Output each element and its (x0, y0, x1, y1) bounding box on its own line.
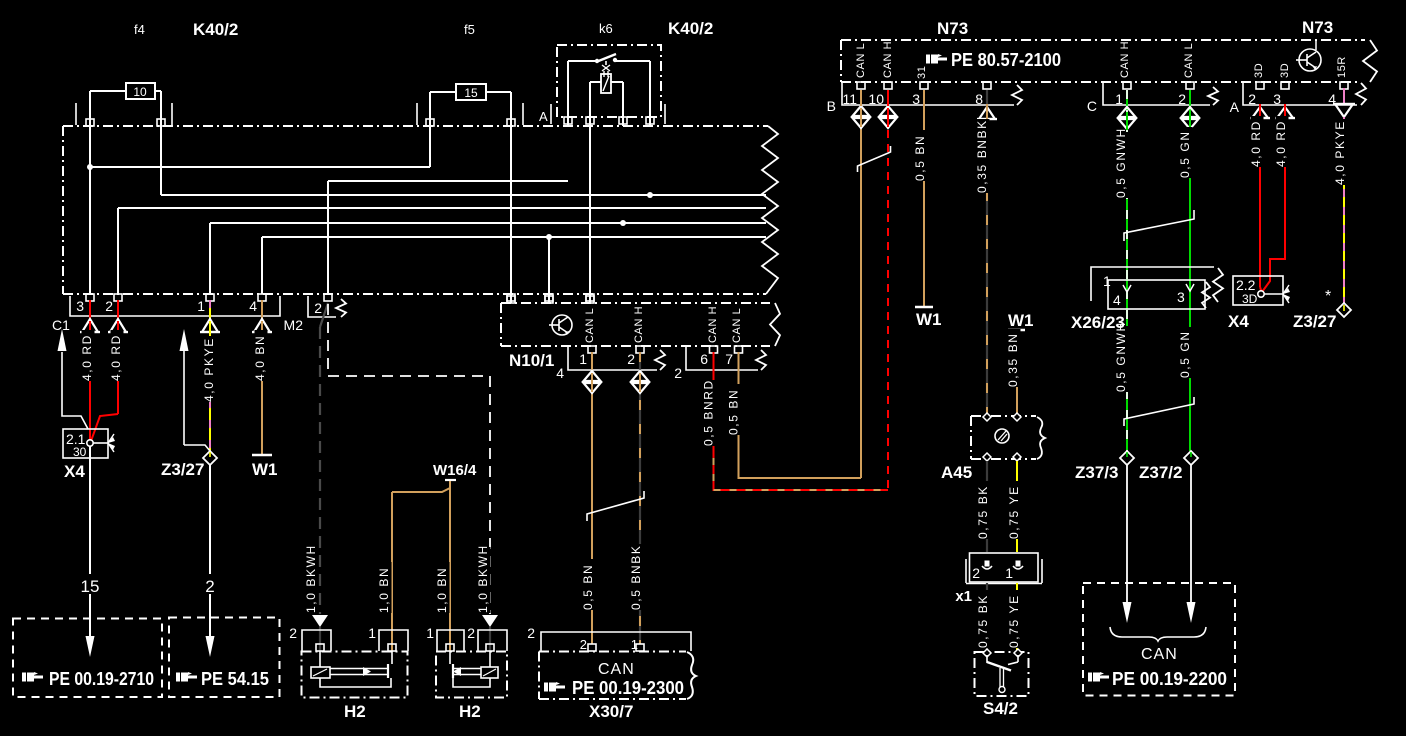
svg-text:1: 1 (1115, 91, 1123, 107)
PE 54.15 box (169, 618, 280, 698)
wire 0,75 BK x1 to S4/2 (976, 583, 990, 652)
ground H2 (left) internals (311, 651, 392, 687)
svg-text:Z3/27: Z3/27 (161, 460, 204, 479)
svg-text:CAN L: CAN L (1183, 43, 1195, 78)
wire CAN L N73 pin11 (tan) (853, 90, 870, 128)
svg-text:CAN H: CAN H (707, 306, 719, 343)
svg-text:0,5 BNBK: 0,5 BNBK (629, 545, 643, 611)
svg-text:Z3/27: Z3/27 (1293, 312, 1336, 331)
svg-text:3: 3 (1177, 289, 1185, 305)
svg-text:H2: H2 (344, 702, 366, 721)
svg-text:3: 3 (76, 298, 84, 314)
svg-text:0,35 BN: 0,35 BN (1006, 332, 1020, 387)
svg-text:W1: W1 (252, 460, 278, 479)
splice Z37/3 (1075, 451, 1134, 482)
wire 0,75 YE x1 to S4/2 (1007, 583, 1021, 652)
svg-text:1,0 BN: 1,0 BN (435, 567, 449, 613)
svg-text:CAN L: CAN L (584, 308, 596, 343)
svg-text:f5: f5 (464, 22, 475, 37)
svg-text:3: 3 (1273, 91, 1281, 107)
svg-text:W1: W1 (1008, 311, 1034, 330)
switch S4/2 (975, 649, 1029, 718)
svg-text:4,0 PKYE: 4,0 PKYE (1333, 120, 1347, 185)
svg-text:2: 2 (1248, 91, 1256, 107)
svg-text:0,75 BK: 0,75 BK (976, 594, 990, 648)
twisted pair marker (BN/BNBK) (587, 491, 644, 521)
N73 connector B bracket (827, 82, 1022, 114)
N10/1 bottom pin marks (588, 346, 743, 353)
wire 1,0 BKWH to left H2 (304, 303, 328, 651)
relay k6 contact (568, 54, 650, 126)
svg-text:0,5 GN: 0,5 GN (1178, 330, 1192, 378)
N73 bottom pin marks (857, 82, 1348, 89)
svg-text:1,0 BN: 1,0 BN (377, 567, 391, 613)
twisted pair marker (green pair lower) (1124, 397, 1194, 426)
N73 connector A bracket (1230, 82, 1366, 115)
connector C1 bracket (52, 296, 280, 333)
wire CAN H N73 pin10 (red) (880, 90, 897, 128)
wire M2 pin 2 to k6 switch (328, 181, 568, 294)
N73 transistor symbol (1296, 49, 1321, 71)
svg-text:15: 15 (464, 86, 478, 100)
wire 0,5 BNRD N10/1 pin6 to N73 pin10 (702, 130, 888, 490)
svg-text:2.2: 2.2 (1236, 277, 1256, 293)
svg-text:2: 2 (627, 351, 635, 367)
svg-text:f4: f4 (134, 22, 145, 37)
svg-text:H2: H2 (459, 702, 481, 721)
svg-text:1: 1 (1005, 565, 1013, 581)
svg-text:4,0 RD: 4,0 RD (1249, 120, 1263, 167)
wire f4 right to k6 switch bus (161, 126, 766, 198)
ground W1 to A45 0,35 BN (1006, 311, 1033, 416)
svg-text:X4: X4 (64, 462, 85, 481)
wire 0,5 BN N10/1 pin1 to X30/7 (581, 352, 600, 644)
svg-text:1: 1 (579, 351, 587, 367)
wire 4,0 RD pin 3 (80, 300, 100, 441)
control unit N10/1 box (501, 303, 780, 370)
svg-text:X30/7: X30/7 (589, 702, 633, 721)
X30/7 labels (544, 661, 684, 721)
wire 4,0 PKYE pin 1 (200, 300, 220, 451)
svg-text:0,5 GN: 0,5 GN (1178, 130, 1192, 178)
CAN PE 00.19-2200 box (1083, 583, 1235, 696)
k6 pin marks on K40/2 (564, 117, 654, 124)
wire f5 into N10/1 (510, 126, 512, 303)
svg-text:4: 4 (1113, 292, 1121, 308)
svg-text:30: 30 (73, 445, 87, 459)
svg-text:M2: M2 (284, 317, 304, 333)
svg-text:0,75 YE: 0,75 YE (1007, 485, 1021, 539)
wire 1,0 BKWH to right H2 (328, 304, 498, 651)
svg-text:2: 2 (1178, 91, 1186, 107)
svg-text:CAN: CAN (1141, 646, 1178, 663)
N10/1 internal labels (584, 306, 743, 343)
svg-text:8: 8 (975, 91, 983, 107)
wire 4,0 RD pin 2 (91, 300, 128, 441)
wire 0,5 GNWH N73 C1 to Z37/3 (1114, 90, 1135, 451)
splice Z3/27 (left) (161, 329, 217, 479)
terminal W16/4 (433, 462, 477, 480)
svg-text:1,0 BKWH: 1,0 BKWH (476, 544, 490, 613)
module A45 box (941, 413, 1045, 482)
wire 0,5 BN N10/1 pin7 to N73 pin11 (727, 128, 861, 478)
svg-text:6: 6 (700, 351, 708, 367)
svg-text:2: 2 (105, 298, 113, 314)
connector x1 (955, 553, 1042, 605)
wire pin 2 bus (118, 208, 766, 294)
relay k6 box (557, 45, 661, 117)
svg-text:2: 2 (467, 625, 475, 641)
svg-text:PE 80.57-2100: PE 80.57-2100 (951, 50, 1061, 70)
svg-text:2: 2 (314, 300, 322, 316)
svg-text:0,35 BNBK: 0,35 BNBK (975, 119, 989, 193)
wire k6 coil into N10/1 (589, 126, 591, 303)
svg-text:N73: N73 (1302, 18, 1333, 37)
svg-text:1: 1 (1103, 273, 1111, 289)
PE 00.19-2710 box (13, 619, 162, 698)
svg-text:15R: 15R (1336, 56, 1348, 78)
wire circuit 15 to PE 00.19-2710 (80, 446, 100, 657)
fuse f4 (76, 83, 172, 126)
N73 internal labels right (1119, 41, 1348, 78)
wire 4,0 BN pin 4 to ground W1 (252, 300, 278, 479)
svg-text:1: 1 (197, 298, 205, 314)
svg-text:1: 1 (426, 625, 434, 641)
svg-text:W16/4: W16/4 (433, 462, 477, 479)
wire pin 1 to k6 coil bus (210, 220, 766, 294)
svg-text:x1: x1 (955, 588, 972, 605)
wire pin 4 bus to N10/1 (262, 234, 766, 303)
svg-text:7: 7 (725, 351, 733, 367)
N10/1 transistor symbol (549, 315, 572, 335)
terminal X4 (right) (1228, 276, 1290, 331)
wire 0,75 BK A45 to x1 (976, 461, 990, 552)
svg-text:A: A (1230, 99, 1240, 115)
svg-text:X4: X4 (1228, 312, 1249, 331)
svg-text:11: 11 (842, 91, 857, 107)
svg-text:4: 4 (249, 298, 257, 314)
connector X26/23 (1071, 267, 1223, 332)
N10/1 connector 2 bracket (674, 346, 766, 381)
svg-text:CAN: CAN (598, 661, 635, 678)
ground H2 (left) box (289, 625, 408, 721)
svg-text:3: 3 (912, 91, 920, 107)
twisted pair marker (CAN to N73) (858, 146, 891, 172)
svg-text:0,5 BN: 0,5 BN (581, 564, 595, 610)
svg-text:3D: 3D (1253, 63, 1265, 78)
svg-text:0,75 YE: 0,75 YE (1007, 594, 1021, 648)
svg-text:4,0 RD: 4,0 RD (80, 334, 94, 381)
svg-text:1,0 BKWH: 1,0 BKWH (304, 544, 318, 613)
svg-text:*: * (1325, 288, 1331, 305)
svg-text:B: B (827, 98, 836, 114)
ground H2 (right) box (426, 625, 507, 721)
svg-text:2: 2 (580, 637, 587, 652)
svg-text:15: 15 (81, 577, 100, 596)
N10/1 connector 4 bracket (556, 346, 665, 381)
wire 0,75 YE A45 to x1 (1007, 461, 1021, 552)
svg-text:4: 4 (556, 365, 564, 381)
svg-text:W1: W1 (916, 310, 942, 329)
N73 internal labels left (855, 41, 928, 79)
svg-text:K40/2: K40/2 (193, 20, 238, 39)
svg-text:PE 00.19-2710: PE 00.19-2710 (49, 669, 154, 689)
svg-text:10: 10 (868, 91, 884, 107)
svg-text:0,5 BN: 0,5 BN (913, 135, 927, 181)
svg-text:CAN H: CAN H (633, 306, 645, 343)
wire f4 to pin 3 with junction (87, 126, 430, 294)
svg-text:CAN H: CAN H (882, 41, 894, 78)
terminal X4 (left) (58, 329, 116, 481)
svg-text:N73: N73 (937, 19, 968, 38)
svg-text:0,5 BNRD: 0,5 BNRD (702, 379, 716, 446)
svg-text:PE 00.19-2300: PE 00.19-2300 (572, 678, 684, 698)
svg-text:2: 2 (527, 625, 535, 641)
svg-text:4,0 PKYE: 4,0 PKYE (202, 337, 216, 402)
svg-text:PE 00.19-2200: PE 00.19-2200 (1112, 669, 1227, 689)
wire 4,0 RD N73 A3 (1262, 104, 1295, 292)
X30/7 bracket (527, 625, 691, 652)
svg-text:C: C (1087, 98, 1097, 114)
svg-text:X26/23: X26/23 (1071, 313, 1125, 332)
svg-text:A45: A45 (941, 463, 972, 482)
control unit K40/2 box (63, 126, 778, 294)
wire 1,0 BN W16/4 to right H2 (435, 488, 450, 651)
svg-text:3D: 3D (1242, 292, 1258, 306)
N10/1 top pin marks (507, 296, 594, 303)
wire 1,0 BN W16/4 to left H2 (377, 481, 450, 651)
svg-text:2: 2 (289, 625, 297, 641)
connector M2 bracket (284, 296, 346, 333)
svg-text:N10/1: N10/1 (509, 351, 554, 370)
svg-text:4,0 RD: 4,0 RD (109, 334, 123, 381)
wire 0,5 GN N73 C2 to Z37/2 (1178, 90, 1198, 451)
splice Z3/27 (right) (1293, 288, 1351, 331)
control unit N73 box (841, 18, 1377, 82)
fuse f5 (417, 84, 523, 126)
svg-text:S4/2: S4/2 (983, 699, 1018, 718)
twisted pair marker (green pair upper) (1124, 210, 1194, 241)
svg-text:A: A (539, 109, 548, 124)
relay k6 coil (590, 61, 623, 126)
wire circuit 2 to PE 54.15 (200, 465, 220, 657)
K40/2 bottom pin marks (86, 294, 594, 301)
wire 0,5 BN N73 pin3 to ground W1 (913, 90, 941, 329)
connector X30/7 box (539, 652, 696, 700)
svg-text:k6: k6 (599, 21, 613, 36)
N73 connector C bracket (1087, 82, 1218, 114)
svg-text:0,75 BK: 0,75 BK (976, 485, 990, 539)
svg-text:C1: C1 (52, 317, 70, 333)
svg-text:3D: 3D (1279, 63, 1291, 78)
wire 0,5 BNBK N10/1 pin2 to X30/7 (629, 352, 648, 644)
N73 PE reference (926, 50, 1061, 70)
svg-text:0,5 GNWH: 0,5 GNWH (1114, 127, 1128, 198)
svg-text:CAN H: CAN H (1119, 41, 1131, 78)
svg-text:2: 2 (674, 365, 682, 381)
svg-text:2: 2 (972, 565, 980, 581)
wire Z37/2 to CAN (1187, 465, 1196, 623)
svg-text:4,0 RD: 4,0 RD (1274, 120, 1288, 167)
wire 4,0 PKYE N73 A4 to Z3/27 (1333, 88, 1355, 303)
svg-text:4,0 BN: 4,0 BN (253, 335, 267, 381)
svg-text:CAN L: CAN L (855, 43, 867, 78)
svg-text:10: 10 (133, 85, 147, 99)
svg-text:1: 1 (368, 625, 376, 641)
wire 0,35 BNBK N73 pin8 to A45 (975, 90, 997, 416)
svg-text:Z37/2: Z37/2 (1139, 463, 1182, 482)
svg-text:0,5 BN: 0,5 BN (727, 389, 741, 435)
splice Z37/2 (1139, 451, 1198, 482)
wire Z37/3 to CAN (1123, 465, 1132, 623)
svg-text:CAN L: CAN L (731, 308, 743, 343)
ground H2 (right) internals (450, 651, 498, 687)
svg-text:K40/2: K40/2 (668, 19, 713, 38)
wire 4,0 RD N73 A2 (1249, 104, 1270, 293)
svg-text:2: 2 (205, 577, 214, 596)
svg-text:31: 31 (916, 66, 928, 79)
svg-text:Z37/3: Z37/3 (1075, 463, 1118, 482)
svg-text:PE 54.15: PE 54.15 (201, 669, 269, 689)
